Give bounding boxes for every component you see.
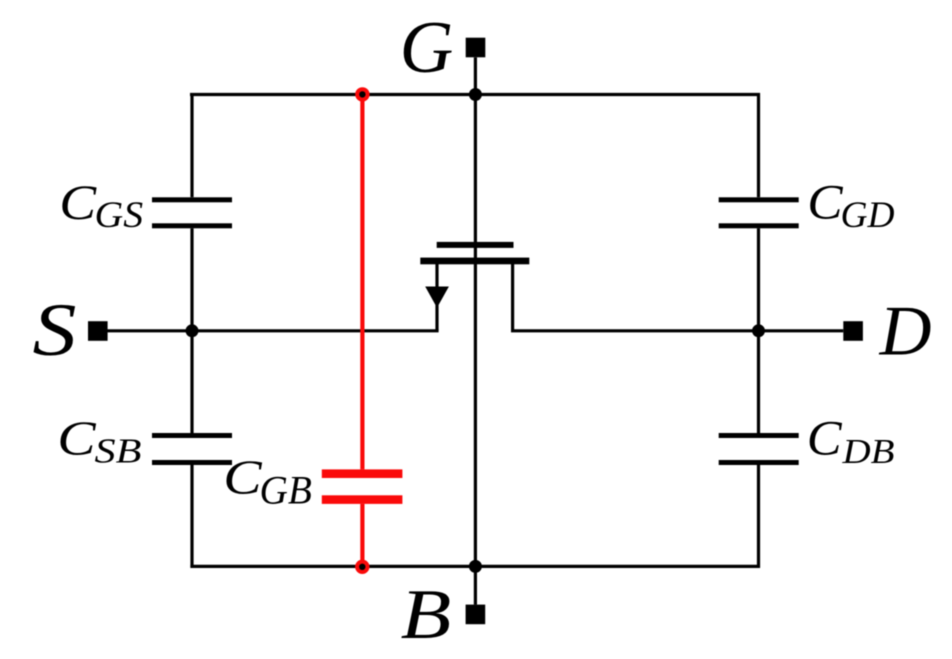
svg-text:S: S xyxy=(33,289,77,372)
svg-text:D: D xyxy=(879,293,932,371)
svg-text:C: C xyxy=(59,174,97,230)
svg-text:G: G xyxy=(400,7,454,89)
svg-text:SB: SB xyxy=(95,432,142,471)
svg-text:B: B xyxy=(401,576,452,654)
svg-text:DB: DB xyxy=(841,432,894,471)
svg-text:C: C xyxy=(807,175,843,230)
svg-text:GD: GD xyxy=(841,194,895,235)
svg-text:C: C xyxy=(223,450,263,505)
svg-text:C: C xyxy=(57,411,97,466)
svg-text:GS: GS xyxy=(95,194,144,235)
svg-text:GB: GB xyxy=(260,468,312,513)
svg-text:C: C xyxy=(807,410,842,466)
